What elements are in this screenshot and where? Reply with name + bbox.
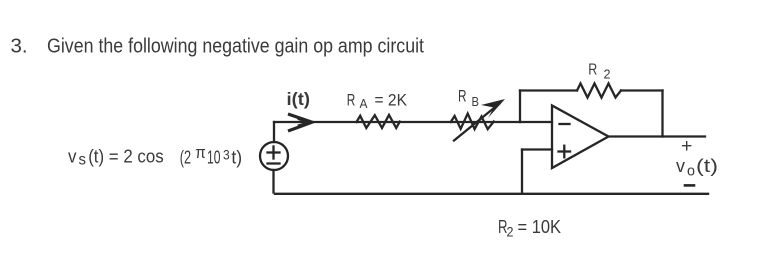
wire: feedback left vertical xyxy=(519,91,521,123)
label output - xyxy=(685,184,694,187)
resistor RB (variable) xyxy=(451,114,494,130)
title xyxy=(11,35,425,58)
svg-text:v: v xyxy=(676,156,685,176)
wire: bottom return xyxy=(275,193,708,195)
svg-text:π: π xyxy=(195,143,206,162)
svg-text:+: + xyxy=(681,135,692,157)
wire: non-inverting input horizontal xyxy=(522,148,552,150)
svg-text:s: s xyxy=(79,152,87,169)
voltage source VS xyxy=(260,142,288,170)
label RB xyxy=(458,87,479,110)
wire: feedback top right segment xyxy=(621,89,663,91)
wire: feedback top left segment xyxy=(520,89,577,91)
svg-text:i(t): i(t) xyxy=(287,89,311,109)
label RA = 2K xyxy=(347,91,408,112)
wire: non-inverting input vertical xyxy=(521,150,523,194)
label vo(t) xyxy=(676,156,718,180)
svg-text:R: R xyxy=(347,91,356,110)
svg-text:Given the following negative g: Given the following negative gain op amp… xyxy=(47,35,424,58)
resistor RA xyxy=(357,115,400,128)
wire: source top lead xyxy=(273,122,275,142)
svg-text:R: R xyxy=(588,62,597,79)
svg-text:(t) = 2 cos: (t) = 2 cos xyxy=(88,146,164,167)
current arrow i(t) xyxy=(290,115,313,131)
svg-text:= 10K: = 10K xyxy=(518,216,562,237)
svg-text:R: R xyxy=(458,87,467,106)
wire: feedback right vertical xyxy=(661,91,663,137)
op-amp U1 xyxy=(552,106,609,169)
svg-text:10: 10 xyxy=(207,147,221,168)
svg-text:3.: 3. xyxy=(11,35,28,58)
svg-text:2: 2 xyxy=(507,225,514,240)
svg-text:(t): (t) xyxy=(696,156,718,176)
svg-text:t): t) xyxy=(231,147,242,168)
source value label vs(t) = 2 cos (2pi10^3 t) xyxy=(68,143,242,169)
label R2 = 10K xyxy=(498,216,562,240)
RB wiper arrow xyxy=(454,99,505,141)
svg-text:B: B xyxy=(472,94,480,109)
label R2 xyxy=(588,62,610,82)
wire: output xyxy=(609,135,706,137)
wire: source bottom lead xyxy=(272,170,274,193)
resistor R2 xyxy=(577,84,621,98)
svg-text:A: A xyxy=(360,97,369,111)
svg-text:o: o xyxy=(687,164,695,180)
svg-text:v: v xyxy=(68,146,77,167)
svg-text:2: 2 xyxy=(604,68,611,82)
wire: main input wire (source to inverting input) xyxy=(274,121,552,123)
svg-text:(2: (2 xyxy=(180,147,191,168)
svg-text:3: 3 xyxy=(223,147,230,163)
svg-text:= 2K: = 2K xyxy=(375,91,408,110)
